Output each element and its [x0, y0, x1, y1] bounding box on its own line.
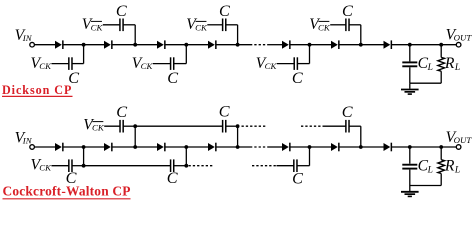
node RL (bottom)	[439, 145, 443, 149]
wire	[409, 186, 411, 192]
input terminal (top)	[30, 42, 35, 47]
svg-text:C: C	[342, 2, 353, 20]
diode D6 (bottom)	[331, 143, 338, 151]
capacitor C (CW top string 3)	[345, 120, 347, 133]
wire (node to pump cap 2bar, top)	[237, 25, 239, 45]
diode D4 (bottom)	[208, 143, 215, 151]
wire	[349, 125, 361, 127]
wire	[297, 165, 310, 167]
wire	[135, 125, 222, 127]
svg-text:IN: IN	[22, 33, 33, 43]
wire	[268, 44, 282, 46]
capacitor CL (top)	[402, 61, 417, 63]
svg-text:C: C	[167, 69, 178, 87]
wire (dashed continuation, top rail)	[250, 44, 268, 46]
wire	[290, 44, 331, 46]
node CL (top)	[408, 43, 412, 47]
svg-text:C: C	[219, 103, 230, 121]
resistor RL (top)	[438, 57, 445, 71]
wire	[339, 146, 383, 148]
node (top string at N2)	[133, 124, 137, 128]
diode D5 (top)	[282, 41, 289, 49]
svg-text:L: L	[454, 166, 460, 176]
capacitor C (CW bottom string 2)	[170, 159, 172, 172]
capacitor C (VCKbar pump 2, top)	[222, 19, 224, 32]
wire (dashed continuation, bottom main rail)	[250, 146, 268, 148]
wire	[409, 67, 411, 83]
capacitor C (CW top string 1)	[119, 120, 121, 133]
wire (node to pump cap 3bar, top)	[360, 25, 362, 45]
wire	[112, 146, 157, 148]
svg-text:IN: IN	[22, 136, 33, 146]
svg-text:C: C	[292, 169, 303, 187]
diode D2 (bottom)	[104, 143, 111, 151]
node N4 (bottom)	[236, 145, 240, 149]
wire (dashed, CW top string a)	[242, 125, 267, 127]
wire	[34, 146, 55, 148]
wire	[409, 83, 411, 89]
node N2 (top)	[133, 43, 137, 47]
wire	[63, 146, 104, 148]
node CL (bottom)	[408, 145, 412, 149]
resistor RL (bottom)	[438, 160, 445, 174]
wire (dashed, CW bottom string a)	[189, 165, 214, 167]
diode D7 (top)	[384, 41, 391, 49]
wire	[165, 146, 208, 148]
wire (node to pump cap 1bar, top)	[134, 25, 136, 45]
svg-text:C: C	[116, 103, 127, 121]
wire	[277, 63, 294, 65]
wire	[409, 170, 411, 186]
diode D3 (top)	[157, 41, 164, 49]
node N3 (top)	[184, 43, 188, 47]
diode D4 (top)	[208, 41, 215, 49]
wire	[123, 125, 135, 127]
capacitor C (VCKbar pump 3, top)	[345, 19, 347, 32]
svg-text:CK: CK	[141, 61, 154, 71]
diode D2 (top)	[104, 41, 111, 49]
wire	[103, 24, 120, 26]
wire	[216, 44, 250, 46]
wire (node to pump cap 1, top)	[83, 45, 85, 64]
ground (top)	[401, 89, 419, 91]
wire (node to pump cap 3, top)	[309, 45, 311, 64]
wire	[440, 71, 442, 83]
wire	[268, 146, 282, 148]
node N1 (top)	[82, 43, 86, 47]
output terminal (bottom)	[456, 145, 461, 150]
node N3 (bottom)	[184, 145, 188, 149]
wire	[63, 44, 104, 46]
svg-text:L: L	[427, 166, 433, 176]
svg-text:CK: CK	[39, 61, 52, 71]
svg-text:CK: CK	[91, 22, 104, 32]
node (bottom string at N1)	[82, 164, 86, 168]
wire	[72, 165, 84, 167]
wire	[207, 24, 222, 26]
wire (riser N2)	[134, 126, 136, 147]
wire	[324, 125, 346, 127]
wire (riser N6)	[360, 126, 362, 147]
node (top string at N4)	[236, 124, 240, 128]
output terminal (top)	[456, 42, 461, 47]
wire	[112, 44, 157, 46]
svg-text:CK: CK	[265, 61, 278, 71]
wire	[84, 165, 171, 167]
svg-text:L: L	[454, 63, 460, 73]
wire	[440, 45, 442, 58]
svg-text:C: C	[167, 169, 178, 187]
svg-text:C: C	[292, 69, 303, 87]
node RL (top)	[439, 43, 443, 47]
svg-text:R: R	[444, 55, 455, 72]
capacitor C (CW bottom string 3)	[293, 159, 295, 172]
wire (dashed, CW bottom string b)	[252, 165, 277, 167]
svg-text:L: L	[427, 63, 433, 73]
capacitor C (VCK pump 2, top)	[170, 57, 172, 70]
wire	[339, 44, 383, 46]
node N6 (top)	[359, 43, 363, 47]
node N5 (top)	[308, 43, 312, 47]
wire	[392, 146, 457, 148]
input terminal (bottom)	[30, 145, 35, 150]
diode D6 (top)	[331, 41, 338, 49]
node N6 (bottom)	[359, 145, 363, 149]
wire (bottom join, top)	[410, 82, 441, 84]
svg-text:C: C	[116, 2, 127, 20]
ground (bottom)	[401, 191, 419, 193]
wire (dropper N5)	[309, 147, 311, 166]
svg-text:CK: CK	[318, 22, 331, 32]
svg-text:Dickson CP: Dickson CP	[2, 83, 72, 97]
wire	[440, 174, 442, 186]
wire	[330, 24, 346, 26]
node (bottom string at N3)	[184, 164, 188, 168]
wire	[440, 147, 442, 160]
capacitor C (VCK pump 3, top)	[293, 57, 295, 70]
capacitor C (VCKbar pump 1, top)	[119, 19, 121, 32]
svg-text:C: C	[219, 2, 230, 20]
wire	[34, 44, 55, 46]
svg-text:Cockcroft-Walton CP: Cockcroft-Walton CP	[3, 183, 131, 198]
wire	[153, 63, 171, 65]
wire (dashed, CW top string b)	[301, 125, 324, 127]
capacitor C (CW bottom string 1)	[68, 159, 70, 172]
node N1 (bottom)	[82, 145, 86, 149]
wire (bottom join, bottom)	[410, 185, 441, 187]
wire	[104, 125, 120, 127]
wire (node to pump cap 2, top)	[185, 45, 187, 64]
svg-text:CK: CK	[92, 123, 105, 133]
svg-text:R: R	[444, 158, 455, 175]
wire	[409, 147, 411, 164]
wire	[52, 63, 69, 65]
wire	[392, 44, 457, 46]
diode D1 (top)	[55, 41, 62, 49]
wire	[409, 45, 411, 62]
node N4 (top)	[236, 43, 240, 47]
capacitor C (CW top string 2)	[222, 120, 224, 133]
diode D1 (bottom)	[55, 143, 62, 151]
wire	[52, 165, 69, 167]
wire	[277, 165, 294, 167]
wire (riser N4)	[237, 126, 239, 147]
node N5 (bottom)	[308, 145, 312, 149]
svg-text:OUT: OUT	[454, 135, 473, 145]
wire	[226, 125, 238, 127]
wire	[290, 146, 331, 148]
wire (dropper N3)	[185, 147, 187, 166]
svg-text:C: C	[342, 103, 353, 121]
node N2 (bottom)	[133, 145, 137, 149]
svg-text:CK: CK	[39, 163, 52, 173]
wire (dropper N1)	[83, 147, 85, 166]
diode D7 (bottom)	[384, 143, 391, 151]
diode D5 (bottom)	[282, 143, 289, 151]
capacitor CL (bottom)	[402, 164, 417, 166]
wire	[165, 44, 208, 46]
capacitor C (VCK pump 1, top)	[68, 57, 70, 70]
diode D3 (bottom)	[157, 143, 164, 151]
wire	[216, 146, 250, 148]
wire	[174, 165, 187, 167]
svg-text:OUT: OUT	[454, 33, 473, 43]
svg-text:CK: CK	[195, 22, 208, 32]
